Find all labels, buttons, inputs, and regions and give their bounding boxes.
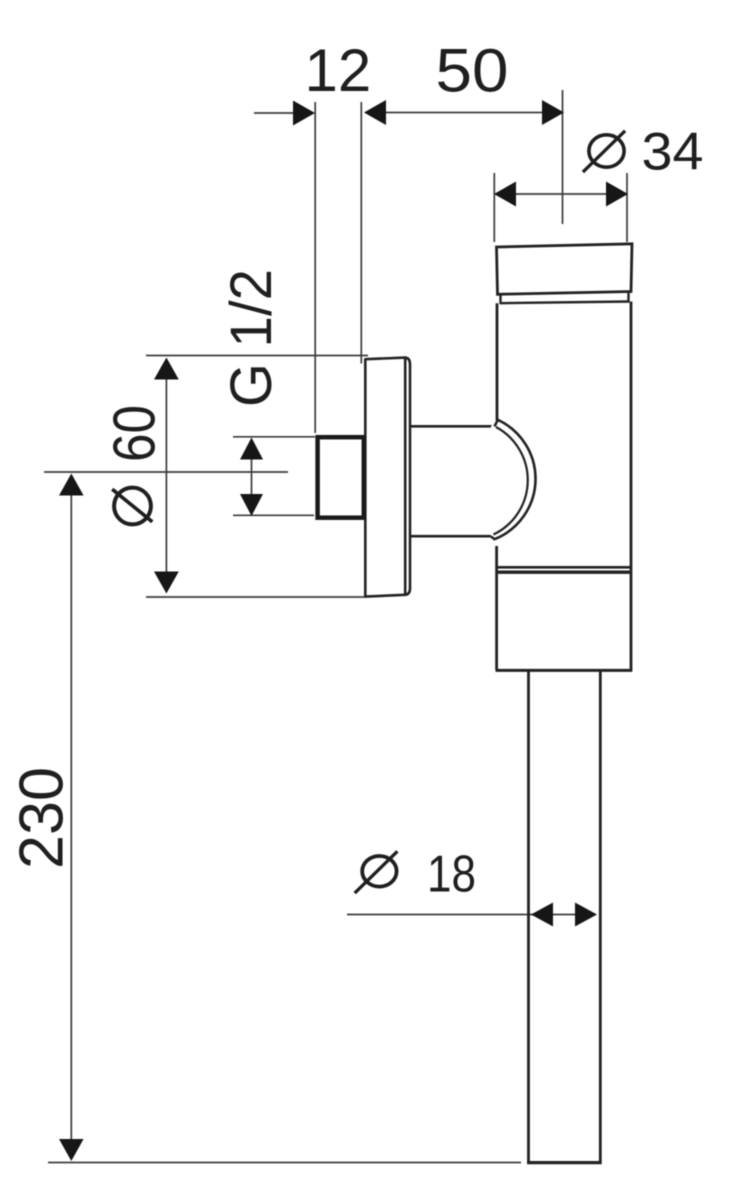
svg-text:60: 60 bbox=[102, 405, 168, 462]
svg-text:18: 18 bbox=[427, 846, 476, 904]
svg-text:34: 34 bbox=[642, 123, 704, 182]
svg-text:12: 12 bbox=[305, 37, 372, 104]
svg-text:50: 50 bbox=[436, 37, 509, 105]
svg-text:230: 230 bbox=[8, 767, 77, 869]
svg-text:G 1/2: G 1/2 bbox=[219, 269, 284, 407]
